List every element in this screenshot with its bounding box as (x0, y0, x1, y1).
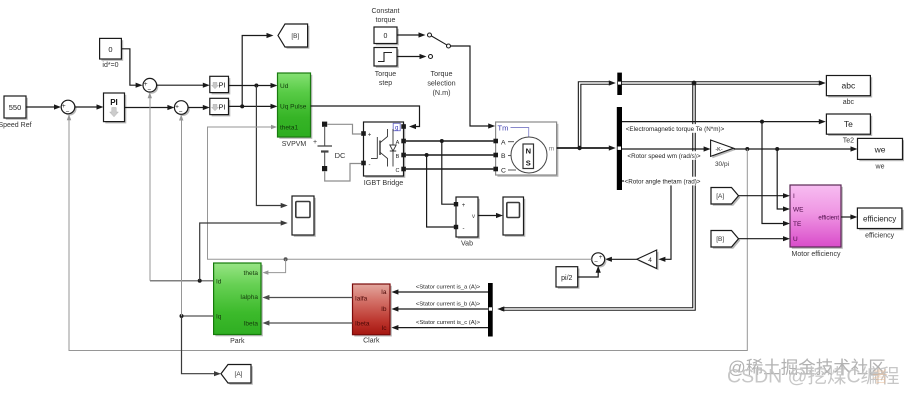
svg-text:efficiency: efficiency (863, 215, 896, 224)
svg-text:torque: torque (376, 17, 396, 24)
svg-text:4: 4 (648, 257, 652, 264)
svg-text:Ialpha: Ialpha (240, 294, 258, 301)
svg-text:SVPVM: SVPVM (282, 141, 307, 148)
svg-text:efficient: efficient (818, 216, 839, 222)
svg-text:<Stator current is_a (A)>: <Stator current is_a (A)> (416, 284, 481, 290)
svg-text:Ibeta: Ibeta (355, 320, 370, 327)
svg-text:Id: Id (216, 278, 222, 285)
svg-text:Tm: Tm (498, 124, 509, 133)
svg-text:-: - (463, 226, 465, 232)
svg-text:C: C (396, 168, 400, 174)
svg-text:B: B (501, 153, 506, 160)
svg-text:<Rotor angle thetam (rad)>: <Rotor angle thetam (rad)> (625, 178, 701, 185)
svg-text:Ib: Ib (381, 306, 387, 313)
svg-text:we: we (874, 145, 886, 155)
svg-text:[B]: [B] (291, 33, 299, 40)
svg-text:者: 者 (872, 368, 888, 386)
svg-text:−: − (594, 259, 598, 266)
svg-text:-K-: -K- (715, 147, 723, 153)
svg-text:N: N (526, 147, 531, 156)
svg-text:WE: WE (793, 207, 804, 214)
svg-text:[A]: [A] (716, 193, 724, 200)
svg-text:−: − (147, 87, 151, 94)
svg-text:-: - (369, 163, 371, 169)
svg-text:pi/2: pi/2 (561, 275, 572, 282)
svg-text:I: I (793, 193, 795, 200)
svg-text:theta: theta (244, 270, 259, 277)
svg-text:Speed Ref: Speed Ref (0, 122, 32, 129)
svg-text:Ic: Ic (381, 325, 387, 332)
svg-text:A: A (501, 139, 506, 146)
svg-text:m: m (549, 146, 554, 153)
svg-text:U: U (793, 236, 798, 243)
svg-text:[A]: [A] (235, 371, 243, 378)
svg-text:+: + (368, 133, 372, 139)
svg-text:PI: PI (218, 102, 225, 111)
svg-text:efficiency: efficiency (865, 233, 895, 240)
svg-text:selection: selection (427, 79, 455, 88)
svg-text:Motor efficiency: Motor efficiency (792, 251, 841, 258)
svg-text:PI: PI (218, 80, 225, 89)
svg-text:[B]: [B] (716, 236, 724, 243)
svg-text:Park: Park (230, 338, 245, 345)
svg-text:step: step (379, 80, 392, 87)
svg-text:Ia: Ia (381, 289, 387, 296)
svg-text:TE: TE (793, 221, 802, 228)
svg-text:+: + (462, 203, 466, 209)
svg-text:<Stator current is_b (A)>: <Stator current is_b (A)> (416, 301, 481, 307)
svg-text:<Stator current is_c (A)>: <Stator current is_c (A)> (416, 320, 481, 326)
svg-text:we: we (875, 164, 885, 171)
svg-text:IGBT Bridge: IGBT Bridge (364, 178, 403, 187)
svg-text:B: B (396, 154, 400, 160)
svg-text:Constant: Constant (371, 8, 399, 15)
svg-text:+: + (599, 254, 603, 261)
svg-text:0: 0 (384, 33, 388, 40)
svg-text:+: + (313, 139, 317, 146)
svg-text:Te: Te (844, 119, 853, 129)
svg-text:Ialfa: Ialfa (355, 296, 368, 303)
svg-text:Torque: Torque (375, 71, 397, 78)
svg-text:0: 0 (108, 45, 112, 54)
svg-text:S: S (526, 159, 531, 168)
svg-text:Ibeta: Ibeta (244, 320, 259, 327)
svg-text:Ud: Ud (280, 83, 289, 90)
svg-text:<Electromagnetic torque Te (N*: <Electromagnetic torque Te (N*m)> (626, 126, 725, 133)
svg-text:30/pi: 30/pi (715, 161, 729, 168)
svg-text:C: C (501, 168, 506, 175)
svg-text:theta1: theta1 (280, 125, 298, 132)
svg-text:id*=0: id*=0 (102, 62, 118, 69)
svg-text:Iq: Iq (216, 314, 222, 321)
svg-text:PI: PI (110, 98, 118, 107)
svg-text:abc: abc (842, 81, 856, 91)
svg-text:<Rotor speed wm (rad/s)>: <Rotor speed wm (rad/s)> (627, 153, 700, 160)
svg-text:Uq Pulse: Uq Pulse (280, 104, 307, 111)
svg-text:550: 550 (9, 103, 22, 112)
svg-text:Te2: Te2 (843, 138, 854, 145)
svg-text:Torque: Torque (431, 69, 453, 78)
svg-text:−: − (179, 109, 183, 116)
svg-text:DC: DC (335, 151, 346, 160)
svg-text:Vab: Vab (461, 241, 473, 248)
svg-text:Clark: Clark (363, 338, 380, 345)
svg-text:(N.m): (N.m) (433, 88, 451, 97)
svg-text:g: g (395, 125, 398, 131)
svg-text:abc: abc (843, 99, 855, 106)
